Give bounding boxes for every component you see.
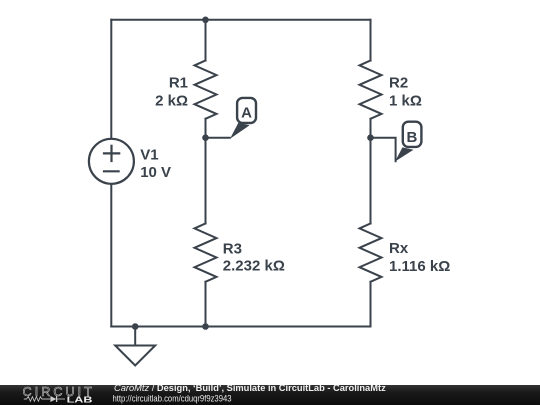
svg-text:R2: R2 [389,74,408,91]
node B bubble [403,122,422,147]
svg-text:2 kΩ: 2 kΩ [155,92,188,109]
svg-text:2.232 kΩ: 2.232 kΩ [223,257,285,274]
wire R2 bottom to node B to Rx [370,119,372,224]
svg-text:R3: R3 [223,241,242,258]
wire bottom horizontal [111,326,370,328]
svg-text:Rx: Rx [389,240,409,257]
junction bottom middle [202,323,209,330]
wire left branch lower [110,184,112,327]
svg-text:A: A [241,105,252,122]
logo diode [50,396,56,402]
svg-text:LAB: LAB [67,395,93,405]
wire top horizontal [111,19,370,21]
junction top middle [202,17,209,24]
logo resistor squiggle [24,397,50,402]
wire R3 bottom lead [205,282,207,327]
svg-text:http://circuitlab.com/cduqr9f9: http://circuitlab.com/cduqr9f9z3943 [113,393,232,403]
svg-text:1.116 kΩ: 1.116 kΩ [389,258,450,275]
node A flag wire [206,137,230,139]
footer bar [0,385,540,405]
node B flag wire [371,138,396,162]
node A tail [230,123,250,139]
junction node A [202,134,209,141]
ground [115,327,155,366]
junction ground [132,323,139,330]
wire R1 bottom to node A to R3 [205,119,207,224]
voltage source V1 [89,139,134,184]
svg-text:10 V: 10 V [140,164,171,181]
resistor Rx [360,224,382,282]
junction node B [367,134,374,141]
svg-text:B: B [406,129,417,146]
wire Rx bottom lead [370,282,372,327]
svg-text:V1: V1 [140,147,158,164]
resistor R2 [360,61,382,119]
resistor R3 [195,224,217,282]
wire middle branch top lead [205,20,207,61]
wire left branch upper [110,20,112,139]
resistor R1 [195,61,217,119]
svg-text:1 kΩ: 1 kΩ [389,92,422,109]
svg-text:R1: R1 [169,74,188,91]
node B tail [395,147,414,161]
wire right branch top lead [370,20,372,61]
node A bubble [237,98,256,123]
svg-text:CaroMtz / Design, ‘Build’, Sim: CaroMtz / Design, ‘Build’, Simulate in C… [114,385,386,393]
